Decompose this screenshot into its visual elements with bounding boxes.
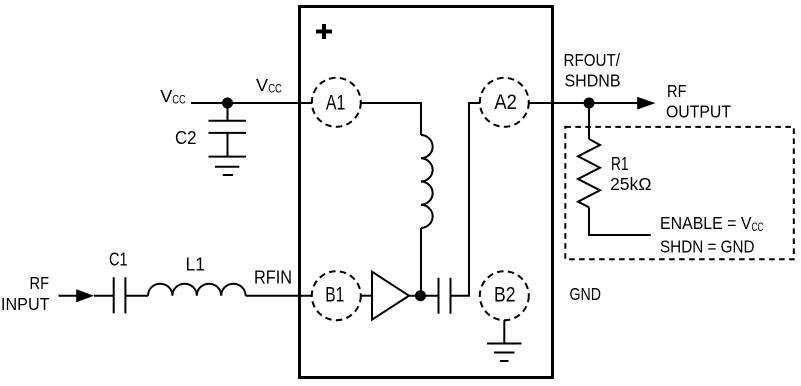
wire capacitor to A2 (451, 103, 480, 296)
svg-text:25kΩ: 25kΩ (610, 174, 652, 194)
ground (under B2) (487, 320, 522, 361)
wire C1 to L1 (125, 295, 148, 297)
capacitor C1 (114, 277, 126, 313)
node Vcc junction (222, 98, 233, 109)
wire B1 to amplifier (361, 295, 372, 297)
amplifier U1a (372, 272, 409, 320)
inductor L1 (148, 284, 246, 296)
resistor R1 (578, 139, 600, 207)
wire R1 to labels (589, 207, 651, 235)
pad B2 (480, 271, 529, 320)
dashed enable option box (565, 127, 794, 259)
svg-text:V: V (256, 75, 268, 95)
svg-text:RF: RF (30, 273, 50, 293)
node amp output junction (415, 290, 426, 301)
wire RF input (59, 295, 78, 297)
svg-text:GND: GND (570, 284, 602, 304)
svg-text:C1: C1 (109, 249, 128, 270)
wire A2 to RF output (529, 102, 638, 104)
IC package outline U1 (300, 7, 553, 378)
svg-text:CC: CC (172, 95, 186, 107)
svg-text:B1: B1 (325, 283, 344, 306)
svg-text:SHDNB: SHDNB (565, 71, 621, 91)
node RFOUT junction (584, 98, 595, 109)
wire amp to capacitor (409, 295, 439, 297)
svg-text:OUTPUT: OUTPUT (666, 102, 731, 122)
svg-text:B2: B2 (494, 283, 516, 306)
ground (under C2) (209, 157, 247, 175)
arrow RF output (637, 97, 655, 110)
inductor L internal (421, 135, 433, 228)
wire inductor to amp output node (420, 228, 422, 296)
capacitor internal coupling (439, 278, 451, 314)
svg-text:RFIN: RFIN (254, 266, 292, 287)
pad A2 (480, 78, 529, 127)
wire arrow to C1 (94, 295, 114, 297)
wire Vcc input to A1 (191, 102, 312, 104)
wire A1 to internal inductor (361, 103, 421, 135)
svg-text:SHDN = GND: SHDN = GND (660, 236, 755, 256)
svg-text:L1: L1 (186, 253, 206, 274)
arrow RF input (76, 289, 94, 302)
svg-text:RF: RF (667, 81, 687, 101)
wire RFOUT node down to R1 (588, 103, 590, 139)
pad A1 (312, 78, 361, 127)
svg-text:CC: CC (268, 84, 282, 96)
svg-text:C2: C2 (175, 127, 197, 148)
svg-text:INPUT: INPUT (1, 294, 50, 314)
capacitor C2 (209, 103, 247, 157)
svg-text:CC: CC (752, 222, 764, 234)
svg-text:V: V (160, 86, 172, 106)
svg-text:R1: R1 (611, 153, 629, 174)
pin-1 plus marker (316, 24, 332, 39)
wire L1 to B1 (246, 295, 312, 297)
svg-text:ENABLE = V: ENABLE = V (660, 213, 752, 233)
svg-text:A1: A1 (326, 91, 346, 114)
svg-text:RFOUT/: RFOUT/ (564, 50, 621, 70)
svg-text:A2: A2 (494, 91, 517, 114)
pad B1 (312, 271, 361, 320)
